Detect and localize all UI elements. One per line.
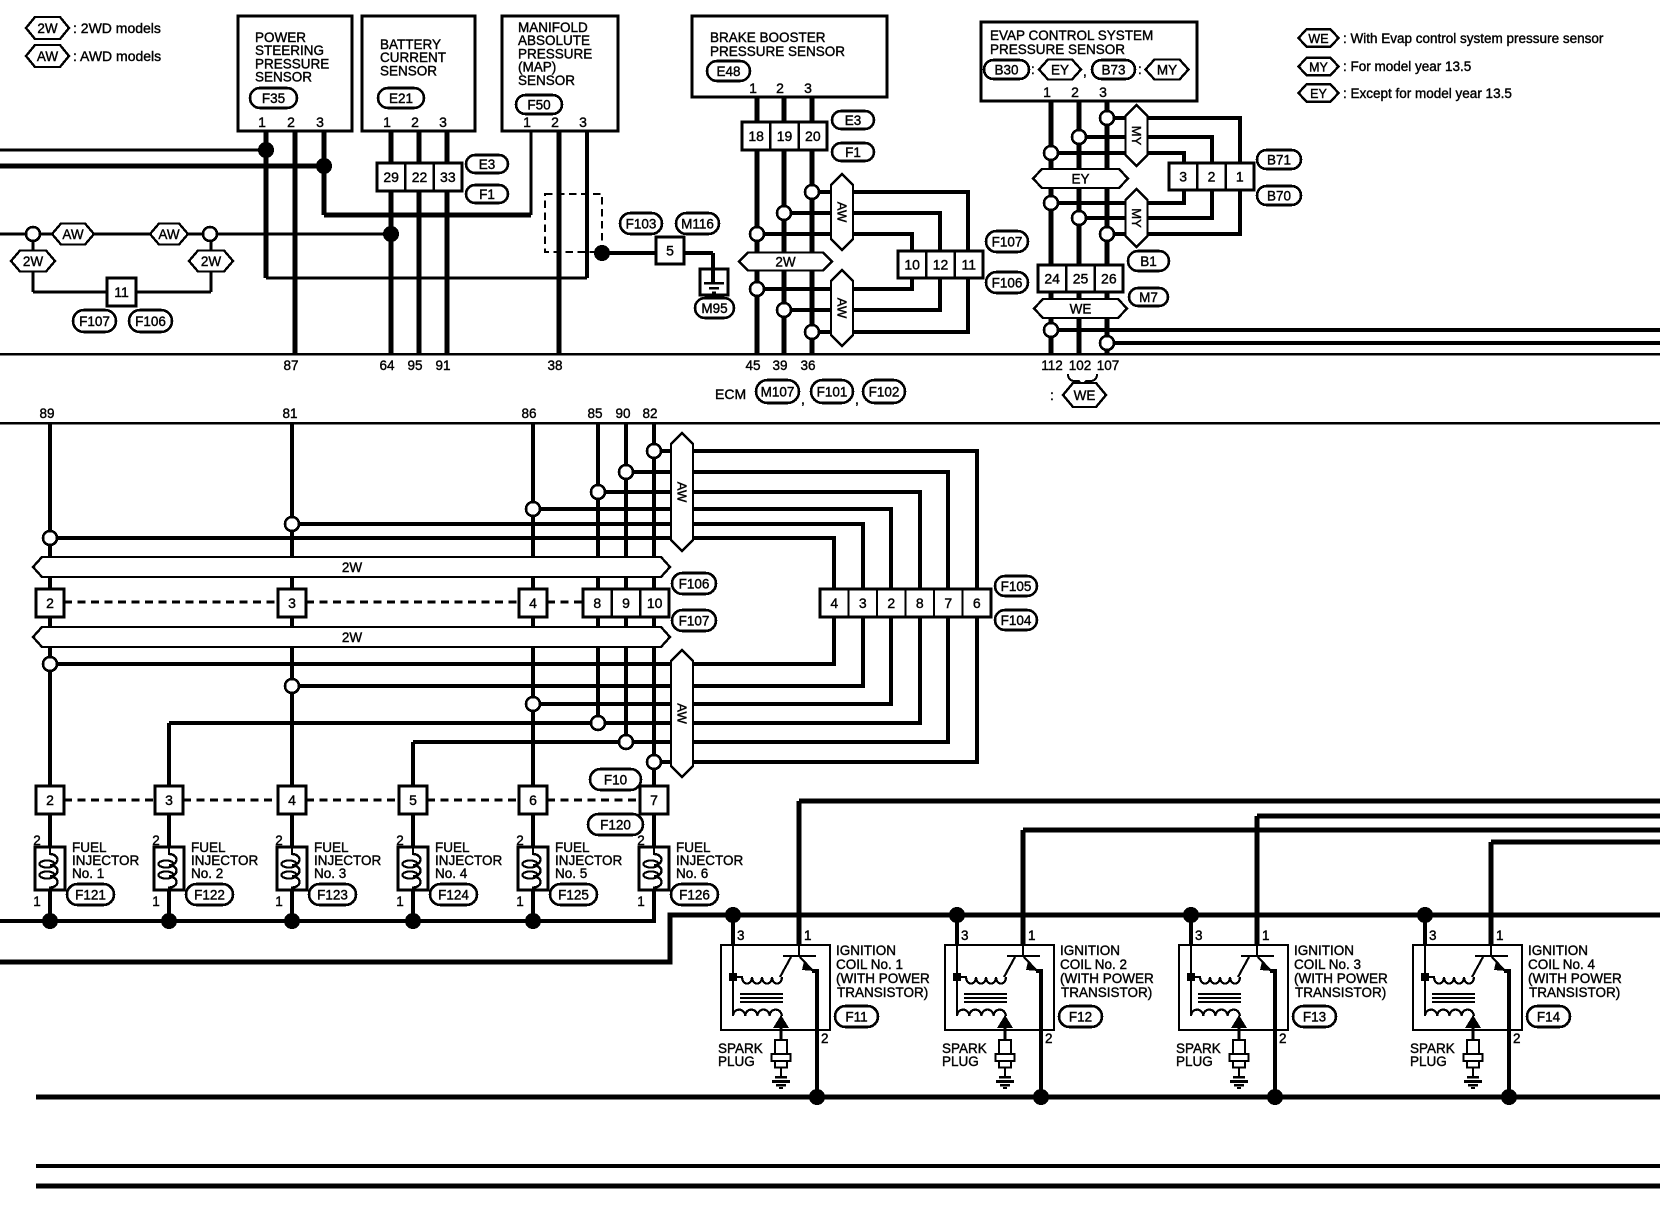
svg-text:IGNITION: IGNITION (836, 943, 896, 958)
svg-text:BRAKE BOOSTER: BRAKE BOOSTER (710, 30, 826, 45)
svg-text:1: 1 (749, 80, 757, 96)
svg-text:2: 2 (396, 833, 404, 848)
svg-text:2: 2 (1045, 1031, 1053, 1046)
svg-text:F10: F10 (604, 772, 627, 787)
svg-text:F106: F106 (992, 275, 1023, 290)
svg-text:1: 1 (1262, 928, 1270, 943)
svg-text:B71: B71 (1267, 152, 1291, 167)
svg-text:45: 45 (745, 358, 760, 373)
svg-text:TRANSISTOR): TRANSISTOR) (1529, 985, 1620, 1000)
svg-text:: AWD models: : AWD models (73, 48, 161, 64)
svg-text::: : (1031, 62, 1035, 77)
svg-text:4: 4 (529, 595, 537, 611)
svg-text:3: 3 (859, 595, 867, 611)
svg-text:2: 2 (152, 833, 160, 848)
svg-text:1: 1 (1043, 84, 1051, 100)
svg-text:22: 22 (412, 169, 428, 185)
svg-text:8: 8 (916, 595, 924, 611)
svg-text:36: 36 (800, 358, 815, 373)
svg-text:M116: M116 (681, 216, 714, 231)
svg-text:No. 2: No. 2 (191, 866, 223, 881)
svg-text:EY: EY (1051, 62, 1069, 77)
svg-text:SENSOR: SENSOR (380, 63, 437, 78)
svg-text:F120: F120 (600, 817, 631, 832)
svg-text:91: 91 (435, 358, 450, 373)
svg-text:B70: B70 (1267, 188, 1291, 203)
svg-text:SENSOR: SENSOR (255, 70, 312, 85)
svg-text:29: 29 (383, 169, 399, 185)
svg-text:2: 2 (275, 833, 283, 848)
svg-text:2: 2 (411, 114, 419, 130)
svg-text:: 2WD models: : 2WD models (73, 20, 161, 36)
svg-text:1: 1 (523, 114, 531, 130)
svg-text:2: 2 (46, 792, 54, 808)
svg-text:1: 1 (516, 894, 524, 909)
svg-text:B1: B1 (1140, 254, 1157, 269)
svg-text:3: 3 (316, 114, 324, 130)
svg-text:5: 5 (409, 792, 417, 808)
svg-text:6: 6 (529, 792, 537, 808)
svg-text:2: 2 (1279, 1031, 1287, 1046)
svg-text:F123: F123 (317, 887, 348, 902)
svg-text:F1: F1 (845, 145, 861, 160)
svg-text:1: 1 (804, 928, 812, 943)
svg-text:PLUG: PLUG (1410, 1054, 1447, 1069)
svg-text:F106: F106 (135, 314, 166, 329)
svg-text:F102: F102 (869, 384, 900, 399)
svg-text::: : (1138, 62, 1142, 77)
svg-text:2: 2 (821, 1031, 829, 1046)
svg-text:3: 3 (737, 928, 745, 943)
svg-text:7: 7 (944, 595, 952, 611)
svg-text:2W: 2W (23, 254, 44, 269)
svg-text:25: 25 (1073, 271, 1089, 287)
svg-text:3: 3 (804, 80, 812, 96)
svg-text:F14: F14 (1537, 1009, 1561, 1024)
svg-text:90: 90 (615, 406, 630, 421)
svg-text:AW: AW (62, 227, 84, 242)
svg-text:: For model year 13.5: : For model year 13.5 (1343, 59, 1471, 74)
svg-text:107: 107 (1097, 358, 1120, 373)
svg-text:(WITH POWER: (WITH POWER (1060, 971, 1154, 986)
svg-text:112: 112 (1041, 358, 1063, 373)
svg-text:18: 18 (748, 128, 764, 144)
svg-text:3: 3 (1429, 928, 1437, 943)
svg-text:ECM: ECM (715, 386, 746, 402)
svg-text:F103: F103 (626, 216, 657, 231)
svg-text:F104: F104 (1001, 613, 1032, 628)
svg-text:2: 2 (1071, 84, 1079, 100)
svg-text:B30: B30 (994, 62, 1018, 77)
svg-text:12: 12 (933, 257, 949, 273)
svg-text:E21: E21 (389, 91, 413, 106)
svg-text:WE: WE (1308, 32, 1328, 46)
svg-text:F107: F107 (992, 234, 1023, 249)
svg-text:F13: F13 (1303, 1009, 1326, 1024)
svg-text:1: 1 (1028, 928, 1036, 943)
svg-text:F11: F11 (845, 1009, 867, 1024)
svg-text:COIL No. 3: COIL No. 3 (1294, 957, 1361, 972)
svg-text:11: 11 (962, 257, 977, 273)
svg-text:COIL No. 1: COIL No. 1 (836, 957, 903, 972)
svg-text:81: 81 (282, 406, 297, 421)
svg-text:EVAP CONTROL SYSTEM: EVAP CONTROL SYSTEM (990, 28, 1153, 43)
svg-text:1: 1 (396, 894, 404, 909)
svg-text:4: 4 (830, 595, 838, 611)
svg-text:M95: M95 (701, 301, 727, 316)
svg-text:AW: AW (835, 202, 850, 223)
svg-text:3: 3 (288, 595, 296, 611)
svg-text:3: 3 (579, 114, 587, 130)
svg-text:B73: B73 (1101, 62, 1125, 77)
svg-text:2W: 2W (342, 630, 363, 645)
svg-text:33: 33 (440, 169, 456, 185)
svg-text:38: 38 (547, 358, 562, 373)
svg-text:2W: 2W (201, 254, 222, 269)
svg-text:TRANSISTOR): TRANSISTOR) (1295, 985, 1386, 1000)
svg-text:82: 82 (642, 406, 657, 421)
svg-text:19: 19 (777, 128, 793, 144)
svg-text:AW: AW (675, 703, 690, 724)
svg-text:1: 1 (383, 114, 391, 130)
svg-text:85: 85 (587, 406, 602, 421)
svg-text:WE: WE (1070, 301, 1092, 316)
svg-text:64: 64 (379, 358, 395, 373)
svg-text:2W: 2W (37, 21, 58, 36)
svg-text:2: 2 (46, 595, 54, 611)
svg-text:2: 2 (287, 114, 295, 130)
svg-text:5: 5 (666, 243, 674, 259)
svg-text:SENSOR: SENSOR (518, 73, 575, 88)
svg-text:1: 1 (258, 114, 266, 130)
svg-text:,: , (801, 391, 805, 407)
svg-text:2: 2 (1513, 1031, 1521, 1046)
svg-text:AW: AW (835, 298, 850, 319)
svg-text:F101: F101 (817, 384, 848, 399)
svg-text:95: 95 (407, 358, 422, 373)
svg-text:F105: F105 (1001, 579, 1032, 594)
svg-text:2: 2 (516, 833, 524, 848)
svg-text:2: 2 (33, 833, 41, 848)
svg-text:3: 3 (1179, 169, 1187, 185)
svg-text:MY: MY (1129, 208, 1144, 228)
svg-text:F1: F1 (479, 187, 495, 202)
svg-text:1: 1 (33, 894, 41, 909)
svg-text:M107: M107 (761, 384, 795, 399)
svg-text:WE: WE (1074, 388, 1096, 403)
svg-text:PLUG: PLUG (718, 1054, 755, 1069)
svg-text:86: 86 (521, 406, 536, 421)
svg-text:: Except for model year 13.5: : Except for model year 13.5 (1343, 86, 1512, 101)
svg-text:MY: MY (1129, 126, 1144, 146)
svg-text:2: 2 (637, 833, 645, 848)
svg-text:No. 1: No. 1 (72, 866, 104, 881)
svg-text:6: 6 (973, 595, 981, 611)
svg-text:No. 3: No. 3 (314, 866, 346, 881)
svg-text:MY: MY (1157, 62, 1177, 77)
svg-text:(WITH POWER: (WITH POWER (1528, 971, 1622, 986)
svg-text:PRESSURE SENSOR: PRESSURE SENSOR (710, 44, 845, 59)
svg-text:2W: 2W (775, 254, 796, 269)
svg-text:EY: EY (1310, 87, 1327, 101)
svg-text:9: 9 (622, 595, 630, 611)
svg-text:87: 87 (283, 358, 298, 373)
svg-text:AW: AW (158, 227, 180, 242)
svg-text:F122: F122 (194, 887, 225, 902)
svg-text:10: 10 (904, 257, 920, 273)
svg-text:F124: F124 (438, 887, 469, 902)
svg-text:IGNITION: IGNITION (1060, 943, 1120, 958)
svg-text:: With Evap control system pr: : With Evap control system pressure sens… (1343, 31, 1604, 46)
svg-text:E3: E3 (479, 157, 496, 172)
svg-text:3: 3 (961, 928, 969, 943)
svg-text:TRANSISTOR): TRANSISTOR) (837, 985, 928, 1000)
svg-text:No. 5: No. 5 (555, 866, 587, 881)
svg-text:39: 39 (772, 358, 787, 373)
svg-text:No. 4: No. 4 (435, 866, 468, 881)
svg-text:PLUG: PLUG (942, 1054, 979, 1069)
svg-text:20: 20 (805, 128, 821, 144)
svg-text:F107: F107 (679, 613, 710, 628)
svg-text:AW: AW (675, 482, 690, 503)
svg-text:F12: F12 (1069, 1009, 1092, 1024)
svg-text:IGNITION: IGNITION (1528, 943, 1588, 958)
svg-text:7: 7 (650, 792, 658, 808)
svg-text:2: 2 (551, 114, 559, 130)
svg-text:24: 24 (1044, 271, 1060, 287)
svg-text:11: 11 (114, 284, 129, 300)
svg-text:26: 26 (1101, 271, 1117, 287)
svg-text:1: 1 (1236, 169, 1244, 185)
svg-text:2W: 2W (342, 560, 363, 575)
svg-text:3: 3 (1099, 84, 1107, 100)
svg-text:4: 4 (288, 792, 296, 808)
svg-text:2: 2 (776, 80, 784, 96)
svg-text:E48: E48 (716, 64, 740, 79)
svg-text:1: 1 (152, 894, 160, 909)
svg-text:COIL No. 4: COIL No. 4 (1528, 957, 1596, 972)
svg-text:M7: M7 (1139, 290, 1158, 305)
svg-text:No. 6: No. 6 (676, 866, 708, 881)
svg-text:8: 8 (593, 595, 601, 611)
svg-text:3: 3 (439, 114, 447, 130)
svg-text:F126: F126 (679, 887, 710, 902)
svg-text:TRANSISTOR): TRANSISTOR) (1061, 985, 1152, 1000)
svg-text:(WITH POWER: (WITH POWER (1294, 971, 1388, 986)
svg-text:F50: F50 (527, 97, 550, 112)
svg-text:89: 89 (39, 406, 54, 421)
svg-text:1: 1 (1496, 928, 1504, 943)
svg-text::: : (1050, 387, 1054, 403)
svg-text:F121: F121 (75, 887, 106, 902)
svg-text:3: 3 (1195, 928, 1203, 943)
svg-text:EY: EY (1071, 171, 1089, 186)
svg-text:3: 3 (165, 792, 173, 808)
svg-text:E3: E3 (845, 113, 862, 128)
svg-text:MY: MY (1309, 60, 1328, 74)
svg-text:2: 2 (887, 595, 895, 611)
svg-text:,: , (1083, 64, 1087, 79)
svg-text:1: 1 (275, 894, 283, 909)
svg-text:COIL No. 2: COIL No. 2 (1060, 957, 1127, 972)
svg-text:10: 10 (647, 595, 663, 611)
svg-text:(WITH POWER: (WITH POWER (836, 971, 930, 986)
svg-text:F107: F107 (79, 314, 110, 329)
svg-text:PRESSURE SENSOR: PRESSURE SENSOR (990, 42, 1125, 57)
svg-text:102: 102 (1069, 358, 1092, 373)
svg-text:2: 2 (1208, 169, 1216, 185)
svg-text:PLUG: PLUG (1176, 1054, 1213, 1069)
svg-text:1: 1 (637, 894, 645, 909)
svg-text:IGNITION: IGNITION (1294, 943, 1354, 958)
svg-text:AW: AW (37, 49, 59, 64)
svg-text:F125: F125 (558, 887, 589, 902)
svg-text:F35: F35 (262, 91, 285, 106)
svg-text:,: , (855, 391, 859, 407)
svg-text:F106: F106 (679, 576, 710, 591)
